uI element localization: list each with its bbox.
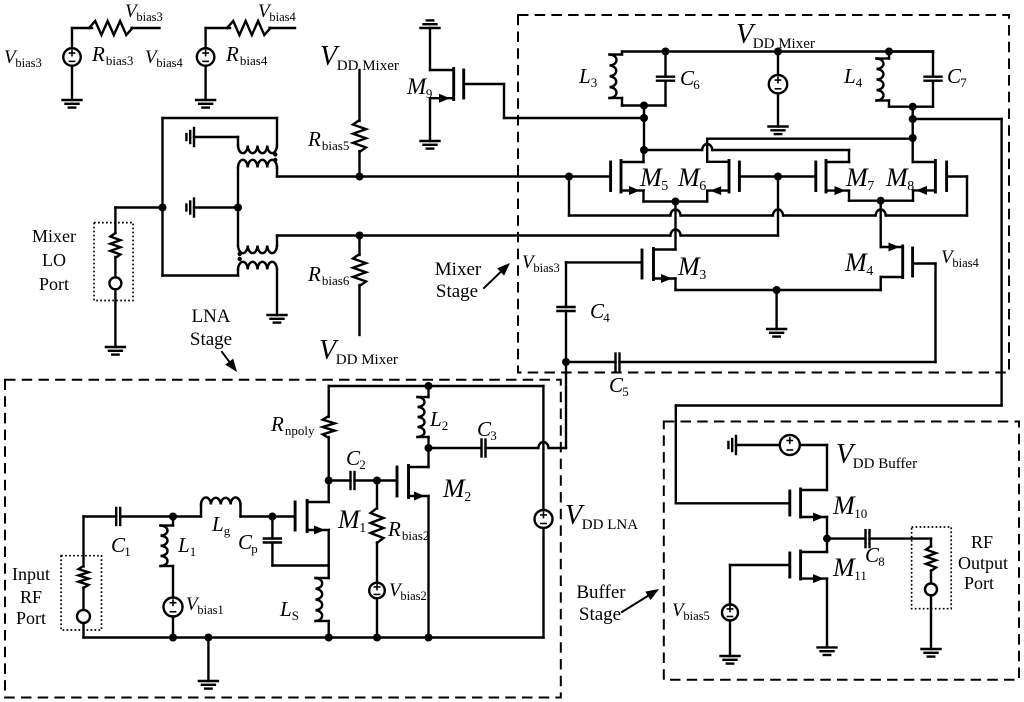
svg-text:M: M — [677, 252, 701, 281]
box Mixer stage — [518, 15, 1009, 373]
svg-text:M: M — [442, 474, 466, 503]
node junction — [159, 204, 167, 212]
wire — [72, 28, 92, 48]
node junction — [909, 103, 917, 111]
node junction — [169, 634, 177, 642]
box LNA stage — [5, 380, 561, 698]
capacitor Cp — [264, 517, 281, 566]
capacitor C2 — [329, 472, 377, 489]
svg-text:R: R — [91, 42, 105, 66]
label C_4 — [590, 299, 610, 325]
port box RF Output — [912, 527, 952, 609]
label M_6 — [677, 163, 706, 194]
wire — [429, 98, 431, 141]
voltage source V_bias4 — [197, 48, 215, 66]
svg-text:M: M — [406, 74, 428, 99]
svg-text:R: R — [270, 412, 284, 436]
current source (mixer) — [769, 52, 787, 127]
svg-text:L: L — [279, 597, 292, 621]
node junction — [823, 535, 831, 543]
wire — [376, 543, 378, 583]
polarity dot T2 — [238, 257, 242, 261]
port box Input RF — [61, 556, 101, 630]
label M_2 — [442, 474, 471, 505]
wire — [114, 208, 116, 234]
label C_5 — [609, 373, 629, 399]
label V_bias1 — [186, 594, 224, 617]
wire M6 gate — [739, 175, 778, 177]
svg-text:L: L — [843, 64, 856, 88]
arrow (LNA stage) — [222, 352, 237, 372]
ground — [106, 347, 125, 355]
label C_1 — [111, 533, 131, 559]
wire — [429, 447, 482, 449]
node junction — [773, 286, 781, 294]
svg-text:R: R — [307, 262, 321, 286]
voltage source V_bias3 — [63, 48, 81, 66]
transistor M3 — [642, 249, 676, 291]
svg-text:Port: Port — [16, 608, 46, 628]
wire — [206, 28, 230, 48]
wire — [568, 177, 570, 216]
label V_bias4 (left) — [145, 47, 184, 70]
label M_11 — [832, 553, 867, 583]
label Buffer Stage — [576, 582, 626, 625]
wire M9 gate — [464, 84, 644, 118]
wire — [328, 437, 330, 481]
svg-text:bias1: bias1 — [197, 603, 223, 617]
svg-text:Stage: Stage — [436, 281, 478, 302]
svg-text:10: 10 — [854, 506, 867, 521]
label M_4 — [844, 248, 873, 279]
wire LO feed — [115, 206, 162, 208]
wire LO- — [277, 230, 778, 236]
svg-text:M: M — [639, 163, 663, 192]
source (input port) — [77, 610, 90, 623]
wire — [114, 289, 116, 347]
wire — [120, 515, 173, 517]
capacitor C8 — [866, 530, 870, 547]
transistor M9 — [430, 69, 464, 103]
svg-text:R: R — [387, 517, 401, 541]
svg-text:M: M — [677, 163, 701, 192]
svg-text:L: L — [429, 407, 442, 431]
ground — [421, 141, 440, 149]
svg-text:RF: RF — [971, 532, 993, 552]
svg-text:3: 3 — [699, 268, 706, 283]
ground — [922, 649, 941, 657]
polarity dot T1 — [273, 158, 277, 162]
node junction — [672, 198, 680, 206]
wire — [376, 598, 378, 637]
inductor L3 — [610, 52, 666, 106]
current source (buffer VDD) — [780, 435, 800, 455]
svg-text:M: M — [337, 505, 361, 534]
wire — [729, 621, 731, 657]
wire tail — [880, 201, 882, 247]
node junction — [877, 197, 885, 205]
svg-text:Buffer: Buffer — [576, 582, 626, 603]
wire — [565, 362, 567, 448]
ground — [818, 647, 837, 655]
svg-text:bias3: bias3 — [533, 261, 559, 275]
wire M3 gate — [566, 261, 642, 263]
ground — [767, 329, 786, 337]
wire — [930, 571, 932, 584]
wire mixer VDD rail — [622, 50, 933, 52]
wire — [565, 262, 567, 307]
svg-text:bias4: bias4 — [952, 256, 979, 270]
label C_2 — [346, 446, 366, 472]
wire LNA top rail — [329, 385, 544, 387]
svg-text:M: M — [832, 491, 856, 520]
wire — [84, 515, 117, 517]
node junction — [373, 634, 381, 642]
wire — [82, 517, 84, 567]
arrow (mixer stage) — [484, 263, 510, 288]
svg-text:M: M — [845, 163, 869, 192]
wire LO top rail — [163, 117, 278, 119]
wire — [82, 588, 84, 610]
svg-text:M: M — [885, 163, 909, 192]
label V_DD Mixer (bottom) — [319, 335, 398, 368]
label Mixer Stage — [435, 259, 482, 302]
node junction — [373, 477, 381, 485]
svg-text:S: S — [292, 608, 299, 623]
polarity dot T1 — [273, 152, 277, 156]
inductor Ls — [316, 566, 329, 638]
wire LO- riser — [777, 177, 779, 236]
wire — [429, 28, 431, 70]
svg-text:7: 7 — [867, 179, 874, 194]
ground — [199, 681, 218, 689]
label V_bias2 — [389, 580, 427, 603]
transistor M7 — [816, 150, 849, 201]
svg-text:4: 4 — [856, 75, 863, 90]
svg-text:6: 6 — [693, 77, 700, 92]
wire — [870, 537, 932, 539]
capacitor C5 — [616, 354, 620, 371]
wire LO+ cross — [569, 210, 967, 216]
resistor (output port) — [926, 546, 936, 571]
ground (buffer supply) — [728, 436, 779, 454]
voltage source V_DD_LNA — [535, 510, 553, 528]
ground (transformer T1 primary) — [186, 128, 238, 146]
node junction — [204, 634, 212, 642]
svg-text:1: 1 — [124, 544, 131, 559]
label M_1 — [337, 505, 366, 536]
capacitor C4 — [558, 307, 575, 362]
label R_npoly — [270, 412, 315, 438]
ground — [63, 100, 82, 108]
label R_bias3 — [91, 42, 133, 68]
svg-text:7: 7 — [960, 75, 967, 90]
wire — [930, 595, 932, 649]
svg-text:M: M — [844, 248, 868, 277]
source (LO port) — [109, 277, 121, 289]
svg-text:bias5: bias5 — [322, 138, 349, 153]
transistor M8 — [913, 161, 947, 201]
transformer T1 primary winding — [238, 137, 277, 153]
transistor M6 — [707, 161, 739, 202]
wire — [775, 290, 777, 329]
svg-text:bias2: bias2 — [400, 589, 426, 603]
svg-text:DD Mixer: DD Mixer — [753, 36, 815, 52]
wire — [376, 481, 378, 509]
label V_bias3 (mixer) — [522, 252, 560, 275]
inductor L4 — [877, 52, 934, 107]
svg-text:5: 5 — [622, 384, 629, 399]
wire — [358, 285, 360, 335]
wire — [486, 442, 567, 448]
label M_5 — [639, 163, 668, 194]
wire LNA ground rail — [84, 636, 544, 638]
box Buffer stage — [664, 422, 1019, 680]
wire — [827, 537, 866, 539]
wire — [207, 638, 209, 682]
node junction — [425, 382, 433, 390]
wire — [276, 118, 278, 146]
wire M3/M4 sources — [676, 289, 881, 291]
ground — [769, 127, 788, 135]
label L_2 — [429, 407, 448, 433]
transistor M2 — [397, 448, 429, 638]
node junction — [325, 477, 333, 485]
label V_bias3 (net) — [125, 1, 163, 24]
svg-text:g: g — [224, 523, 231, 538]
label V_DD Buffer — [836, 439, 917, 472]
port box Mixer LO — [94, 223, 133, 301]
voltage source V_bias2 — [369, 583, 385, 599]
svg-text:3: 3 — [591, 75, 598, 90]
transistor M5 — [611, 150, 644, 202]
label C_p — [238, 530, 258, 556]
ground (balun center tap) — [186, 199, 238, 217]
node junction — [774, 48, 782, 56]
svg-text:p: p — [251, 541, 258, 556]
wire — [358, 236, 360, 256]
svg-text:bias3: bias3 — [15, 56, 41, 70]
svg-text:bias4: bias4 — [269, 10, 296, 24]
label C_8 — [865, 543, 885, 569]
wire M4 gate — [913, 264, 936, 363]
label V_bias3 (left) — [4, 47, 42, 70]
label Mixer LO Port — [32, 226, 76, 294]
node junction — [565, 173, 573, 181]
ground — [196, 100, 215, 108]
label M_3 — [677, 252, 706, 283]
node junction — [640, 114, 648, 122]
svg-text:R: R — [307, 127, 321, 151]
wire IF left — [644, 144, 849, 150]
wire M8 gate — [947, 177, 967, 216]
resistor Rbias6 — [353, 254, 366, 286]
label V_bias5 — [672, 600, 710, 623]
inductor L2 — [418, 386, 429, 448]
label C_3 — [477, 417, 497, 443]
node junction — [268, 513, 276, 521]
resistor Rbias4 — [227, 21, 271, 35]
label V_DD Mixer (top) — [320, 41, 399, 74]
svg-text:6: 6 — [699, 179, 706, 194]
wire — [132, 27, 160, 29]
svg-text:Stage: Stage — [579, 604, 621, 625]
arrow (buffer stage) — [622, 589, 659, 612]
wire M1 gate — [272, 515, 295, 517]
wire — [272, 564, 328, 566]
svg-text:Input: Input — [12, 564, 50, 584]
wire — [800, 445, 827, 490]
svg-text:Mixer: Mixer — [32, 226, 76, 246]
ground — [268, 315, 287, 323]
label V_bias4 (net) — [258, 1, 297, 24]
svg-text:bias6: bias6 — [322, 273, 350, 288]
svg-text:LO: LO — [42, 250, 66, 270]
wire M7/M8 sources — [849, 199, 913, 201]
node junction — [325, 634, 333, 642]
wire — [358, 151, 360, 177]
transistor M10 — [790, 489, 827, 539]
wire — [204, 66, 206, 100]
svg-text:Mixer: Mixer — [435, 259, 482, 280]
wire — [172, 617, 174, 638]
ground (flipped, M9 drain) — [421, 20, 440, 28]
svg-text:5: 5 — [661, 179, 668, 194]
svg-text:Port: Port — [39, 274, 69, 294]
wire LO+ — [277, 175, 611, 177]
voltage source V_bias1 — [164, 598, 183, 617]
wire — [114, 257, 116, 277]
svg-text:bias3: bias3 — [136, 10, 162, 24]
label M_8 — [885, 163, 914, 194]
node junction — [356, 173, 364, 181]
inductor Lg — [173, 498, 272, 517]
svg-text:4: 4 — [603, 310, 610, 325]
wire cross-couple — [707, 139, 913, 162]
svg-text:2: 2 — [442, 418, 449, 433]
node junction — [774, 173, 782, 181]
svg-text:bias2: bias2 — [402, 528, 429, 543]
label M_10 — [832, 491, 867, 521]
node junction — [640, 102, 648, 110]
transistor M11 — [790, 539, 827, 648]
svg-text:DD LNA: DD LNA — [582, 517, 638, 533]
wire tail — [654, 202, 676, 250]
label Input RF Port — [12, 564, 50, 628]
resistor Rnpoly — [323, 416, 335, 438]
label M_9 — [406, 74, 432, 101]
wire — [328, 386, 330, 417]
svg-text:M: M — [832, 553, 856, 582]
label LNA Stage — [190, 306, 232, 350]
svg-text:bias5: bias5 — [683, 609, 709, 623]
source (output port) — [925, 583, 937, 595]
capacitor C1 — [116, 508, 120, 525]
wire — [237, 208, 239, 246]
node junction — [425, 444, 433, 452]
wire — [620, 361, 936, 363]
wire M7 gate — [778, 175, 816, 177]
svg-text:L: L — [211, 512, 224, 536]
svg-text:bias4: bias4 — [156, 56, 183, 70]
label RF Output Port — [958, 532, 1008, 593]
wire — [82, 623, 84, 638]
node junction — [885, 48, 893, 56]
svg-text:2: 2 — [464, 490, 471, 505]
node junction — [169, 513, 177, 521]
capacitor C7 — [888, 52, 942, 107]
svg-text:RF: RF — [20, 587, 42, 607]
wire — [566, 361, 616, 363]
label V_DD Mixer (title) — [736, 19, 815, 52]
label R_bias2 — [387, 517, 429, 543]
resistor Rbias2 — [371, 508, 384, 543]
resistor Rbias5 — [353, 120, 366, 152]
svg-text:1: 1 — [359, 521, 366, 536]
node junction — [662, 48, 670, 56]
svg-text:bias4: bias4 — [240, 53, 268, 68]
node junction — [234, 204, 242, 212]
wire — [643, 106, 645, 151]
node junction — [640, 146, 648, 154]
resistor (LO port) — [110, 233, 120, 258]
wire — [542, 386, 544, 510]
resistor (input port) — [79, 566, 89, 588]
label L_1 — [177, 533, 196, 559]
svg-text:3: 3 — [490, 428, 497, 443]
label V_bias4 (mixer) — [941, 247, 980, 270]
wire — [270, 27, 296, 29]
resistor Rbias3 — [89, 21, 133, 35]
label R_bias6 — [307, 262, 350, 288]
wire — [930, 539, 932, 547]
svg-text:DD Buffer: DD Buffer — [853, 456, 917, 472]
svg-text:Port: Port — [964, 573, 994, 593]
label V_DD LNA — [565, 500, 638, 533]
svg-text:Stage: Stage — [190, 329, 232, 350]
svg-text:DD Mixer: DD Mixer — [336, 352, 398, 368]
inductor L1 — [161, 517, 174, 598]
transformer T2 secondary winding (top) — [238, 236, 277, 254]
label L_3 — [578, 64, 597, 90]
label R_bias5 — [307, 127, 349, 153]
svg-text:L: L — [578, 64, 591, 88]
svg-text:bias3: bias3 — [106, 53, 133, 68]
wire — [358, 70, 360, 121]
capacitor C6 — [657, 52, 674, 106]
transformer T2 primary winding (bottom) — [238, 262, 277, 315]
svg-text:4: 4 — [866, 264, 873, 279]
wire — [71, 66, 73, 100]
svg-text:LNA: LNA — [191, 306, 230, 327]
node junction — [425, 634, 433, 642]
label L_4 — [843, 64, 863, 90]
transistor M1 — [295, 481, 329, 566]
svg-text:1: 1 — [190, 544, 197, 559]
svg-text:2: 2 — [359, 457, 366, 472]
svg-text:npoly: npoly — [285, 423, 315, 438]
node junction — [909, 134, 917, 142]
node junction — [562, 358, 570, 366]
label C_6 — [680, 66, 700, 92]
node junction — [356, 232, 364, 240]
svg-text:R: R — [225, 42, 239, 66]
svg-text:L: L — [177, 533, 190, 557]
label L_S — [279, 597, 299, 623]
label L_g — [211, 512, 231, 538]
wire — [161, 118, 163, 276]
transformer T1 secondary winding — [238, 160, 277, 208]
